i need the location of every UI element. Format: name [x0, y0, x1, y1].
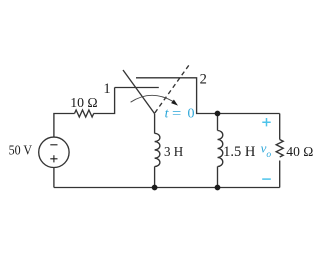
polarity minus: [262, 178, 271, 180]
switch contact bar 2 and wire to node: [136, 78, 280, 114]
junction dot bottom 3H: [152, 185, 158, 191]
wire: 40ohm bottom: [279, 161, 281, 188]
switch blade dashed (position 2): [155, 65, 189, 113]
resistor R 10ohm zigzag: [75, 110, 94, 117]
inductor 3H coil: [155, 133, 160, 166]
wire: source bottom: [53, 168, 55, 188]
wire: resistor to node 1 corner up: [94, 88, 115, 114]
switch contact bar 1: [115, 87, 159, 89]
resistor 40ohm zigzag: [276, 140, 283, 158]
svg-text:50 V: 50 V: [9, 144, 32, 159]
svg-text:1: 1: [103, 81, 110, 97]
voltage source circle: [39, 137, 69, 167]
wire: 40ohm top: [279, 114, 281, 140]
junction dot bottom 1.5H: [215, 185, 221, 191]
source minus sign: [50, 144, 57, 146]
polarity plus: [262, 118, 270, 126]
switch arc arrow: [131, 95, 173, 102]
svg-text:1.5 H: 1.5 H: [223, 144, 255, 160]
wire: 1.5H bottom: [217, 167, 219, 188]
source plus sign: [50, 155, 57, 162]
wire: 3H coil to bottom: [154, 167, 156, 188]
bottom wire: [54, 187, 280, 189]
junction dot node top (1.5H): [215, 111, 221, 117]
switch blade (solid, position 1): [123, 70, 155, 114]
svg-text:3 H: 3 H: [164, 145, 183, 160]
wire: source top to resistor: [54, 114, 75, 138]
inductor 1.5H coil: [218, 131, 223, 167]
svg-text:40 Ω: 40 Ω: [286, 145, 313, 160]
svg-text:10 Ω: 10 Ω: [70, 96, 98, 111]
wire: 1.5H top: [217, 114, 219, 131]
wire: pivot down to 3H coil: [154, 114, 156, 134]
svg-text:2: 2: [200, 71, 207, 87]
